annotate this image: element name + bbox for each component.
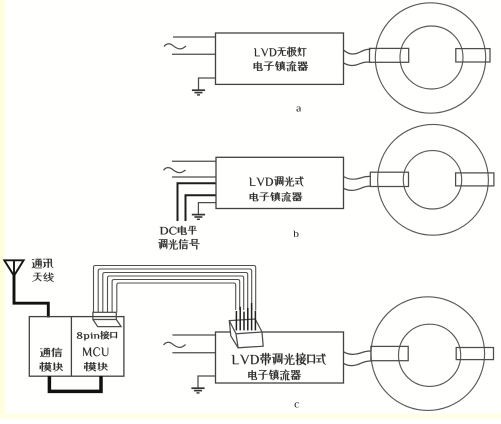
label DC dian ping [160, 226, 197, 235]
wire AC neutral input (b) [172, 176, 216, 178]
wire lamp output 1 (a) [344, 49, 371, 54]
lamp ring outer circle (b) [378, 124, 489, 235]
ballast box a [216, 33, 344, 84]
ground symbol (c) [198, 376, 216, 388]
sub-figure label c [295, 402, 300, 407]
ballast box c [216, 332, 344, 383]
label tian xian (antenna line2) [32, 273, 54, 283]
antenna symbol [4, 260, 23, 276]
lamp ring inner circle (c) [399, 324, 461, 386]
wire dim signal 1 (b) [178, 183, 217, 221]
wire AC neutral input (a) [172, 53, 216, 55]
lamp coupler right (a) [456, 49, 490, 62]
label mo kuai (comm module line2) [40, 362, 63, 372]
wire AC live input (b) [172, 160, 216, 162]
lamp ring outer circle (a) [375, 3, 485, 113]
label dian zi zhen liu qi (b line2) [250, 192, 303, 202]
paper tint bottom edge [0, 414, 501, 419]
AC source symbol ~ (b) [164, 168, 186, 173]
label dian zi zhen liu qi (a line2) [254, 61, 308, 71]
wire antenna feed [14, 275, 48, 318]
connector dim interface (ballast) [229, 319, 263, 348]
lamp ring outer circle (c) [371, 297, 485, 411]
wire dim signal 2 (b) [186, 195, 217, 221]
lamp coupler left (a) [370, 48, 409, 62]
label tong xin (comm module line1) [40, 348, 62, 357]
wire lamp output 2 (c) [344, 361, 372, 366]
connector 8pin (module) [93, 312, 116, 319]
wire lamp output 1 (b) [344, 176, 372, 179]
ribbon wire 5 [112, 280, 240, 313]
lamp ring inner circle (b) [403, 151, 461, 209]
ballast box b [216, 157, 344, 208]
label tong xun (antenna line1) [32, 259, 53, 268]
wire module interconnect (thick U) [49, 376, 101, 391]
lamp coupler right (b) [456, 173, 494, 186]
ground symbol (b) [198, 203, 216, 214]
label 8pin jie kou [77, 331, 117, 340]
lamp ring inner circle (a) [400, 26, 463, 89]
wire lamp output 1 (c) [344, 351, 372, 354]
label mo kuai (MCU module) [84, 362, 107, 371]
label dian zi zhen liu qi (c line2) [248, 370, 300, 381]
label LVD dai tiao guang jie kou shi (c line1) [232, 353, 326, 366]
ribbon wire 6 [117, 283, 236, 312]
wire AC live input (a) [173, 36, 216, 38]
ribbon wire 4 [108, 276, 244, 312]
label LVD wu ji deng (a line1) [254, 47, 306, 58]
connector pins [235, 311, 237, 330]
lamp coupler right (c) [456, 348, 493, 360]
label LVD tiao guang shi (b line1) [249, 177, 304, 187]
wire lamp output 2 (a) [344, 62, 371, 66]
wire lamp output 2 (b) [344, 186, 372, 190]
ground symbol (a) [199, 78, 216, 90]
label MCU [83, 347, 108, 356]
paper tint left edge [0, 0, 5, 419]
AC source symbol ~ (a) [164, 44, 186, 49]
sub-figure label a [296, 106, 300, 111]
module divider [70, 317, 72, 377]
lamp coupler left (c) [371, 346, 408, 360]
lamp coupler left (b) [370, 172, 408, 186]
ribbon wire 1 [94, 266, 256, 313]
label tiao guang xin hao [158, 239, 199, 250]
wire AC neutral input (c) [172, 352, 215, 354]
AC source symbol ~ (c) [164, 342, 186, 347]
wire AC live input (c) [172, 334, 215, 336]
module box (comm + MCU) [29, 317, 124, 377]
ribbon wire 2 [98, 269, 252, 312]
ribbon wire 3 [103, 273, 248, 313]
sub-figure label b [293, 231, 299, 237]
